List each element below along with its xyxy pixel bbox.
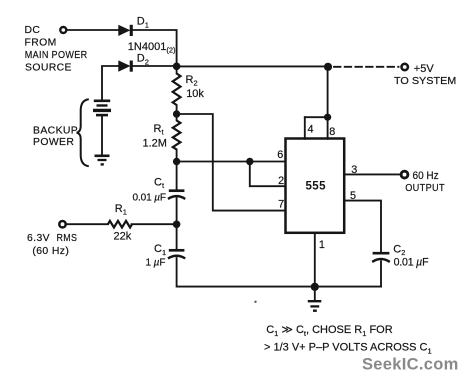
svg-text:5: 5 xyxy=(350,190,356,202)
wire: branch down from pin6 wire to pin 2 xyxy=(250,162,286,187)
wire: +5V rail from junction to dashed segment start xyxy=(177,65,328,67)
diode D2 xyxy=(118,60,130,71)
brace: backup power xyxy=(77,99,89,166)
svg-text:DC: DC xyxy=(25,25,41,36)
svg-text:555: 555 xyxy=(306,180,327,192)
wire: Ct bottom plate down to R1 junction xyxy=(176,198,178,224)
node: Rt bottom / pin6 junction xyxy=(173,158,180,165)
svg-text:6: 6 xyxy=(277,149,283,161)
svg-text:1.2M: 1.2M xyxy=(143,138,167,150)
terminal: 60 Hz output open circle xyxy=(401,171,408,178)
wire: battery bottom to ground stem xyxy=(101,116,103,154)
node: +5V rail to pin8 branch junction xyxy=(324,63,332,71)
resistor R2 body xyxy=(173,74,181,106)
node: ground junction xyxy=(311,283,319,291)
svg-text:FROM: FROM xyxy=(25,38,57,49)
wire: DC input to D1 anode xyxy=(67,29,118,31)
svg-text:3: 3 xyxy=(351,164,357,176)
wire: D2 cathode to junction xyxy=(132,65,177,67)
svg-text:10k: 10k xyxy=(186,88,204,100)
node: pin 4/8 bracket junction xyxy=(324,114,331,121)
svg-text:0.01 µF: 0.01 µF xyxy=(133,193,166,204)
capacitor Ct plates xyxy=(169,189,185,192)
svg-text:> 1/3 V+ P–P VOLTS ACROSS C1: > 1/3 V+ P–P VOLTS ACROSS C1 xyxy=(264,342,432,356)
wire: D2 anode left corner down to battery top xyxy=(102,66,119,100)
wire: R2/Rt junction right then down then right to pin 7 xyxy=(177,114,286,211)
svg-text:(60 Hz): (60 Hz) xyxy=(32,246,69,257)
terminal: +5V open circle xyxy=(402,64,408,70)
wire: C1 bottom plate down and right along bottom to C2 xyxy=(177,258,381,287)
wire: R1 right side to junction xyxy=(132,223,177,225)
wire: pin 4 stub xyxy=(304,117,306,139)
svg-text:BACKUP: BACKUP xyxy=(33,126,78,137)
svg-text:C1 ≫ Ct, CHOSE R1 FOR: C1 ≫ Ct, CHOSE R1 FOR xyxy=(266,324,393,338)
wire: rail to R2 top xyxy=(176,66,178,73)
svg-text:SOURCE: SOURCE xyxy=(25,63,72,74)
svg-text:7: 7 xyxy=(278,198,284,210)
terminal: DC input open circle xyxy=(60,27,66,33)
svg-text:+5V: +5V xyxy=(414,63,435,75)
wire: pin 8 stub xyxy=(327,117,329,139)
svg-text:4: 4 xyxy=(308,124,314,136)
svg-text:1 µF: 1 µF xyxy=(146,258,166,269)
node: R1/Ct/C1 junction xyxy=(173,221,181,229)
speck artifact xyxy=(254,301,256,303)
svg-text:MAIN POWER: MAIN POWER xyxy=(25,50,88,61)
wire: pin 3 output xyxy=(345,173,400,175)
diode D1 xyxy=(118,25,130,36)
wire: ground junction stem xyxy=(314,287,316,300)
svg-text:2: 2 xyxy=(278,175,284,187)
wire: pin 6 horizontal from Rt bottom junction to 555 xyxy=(177,161,286,163)
resistor R1 body xyxy=(108,221,132,228)
op-amp/IC U1: 555 timer box xyxy=(286,139,345,233)
wire: C2 top plate up then left to pin 5 xyxy=(345,201,381,252)
battery BT (backup power) plates xyxy=(94,99,110,102)
wire: dashed rail segment to +5V terminal xyxy=(334,66,399,68)
svg-text:22k: 22k xyxy=(114,231,132,243)
wire: C2 bottom up to C2 plate xyxy=(380,261,382,286)
capacitor C1 plates xyxy=(169,249,185,252)
wire: R2 bottom to Rt top through junction xyxy=(176,105,178,121)
wire: pin 1 stub down to ground junction xyxy=(314,233,316,287)
wire: 6.3V terminal to R1 xyxy=(67,223,108,225)
svg-text:1: 1 xyxy=(319,239,325,251)
node: R2/Rt junction xyxy=(173,110,180,117)
ground: under battery xyxy=(95,155,110,158)
wire: junction down to Ct top plate xyxy=(176,162,178,190)
capacitor C2 plates xyxy=(373,252,390,255)
node: pin6/pin2 branch junction xyxy=(246,158,253,165)
wire: pin 4/8 bracket horizontal xyxy=(305,116,328,118)
ground: main (pin 1) xyxy=(308,300,322,302)
wire: D1 cathode to top-right corner then down to +5V rail junction xyxy=(132,30,177,66)
wire: junction down to C1 top plate xyxy=(176,224,178,249)
terminal: 6.3V RMS input open circle xyxy=(59,221,65,227)
node: D1/D2 cathode junction xyxy=(173,63,181,71)
svg-text:SeekIC.com: SeekIC.com xyxy=(362,356,459,374)
svg-text:OUTPUT: OUTPUT xyxy=(405,183,445,194)
svg-text:TO SYSTEM: TO SYSTEM xyxy=(394,76,456,87)
wire: rail junction down to pin4/8 bracket xyxy=(327,67,329,117)
wire: Rt bottom to pin6 junction xyxy=(176,150,178,162)
svg-text:60 Hz: 60 Hz xyxy=(413,170,439,182)
svg-text:POWER: POWER xyxy=(33,137,74,148)
svg-text:0.01 µF: 0.01 µF xyxy=(394,257,429,269)
resistor Rt body xyxy=(173,121,181,150)
svg-text:8: 8 xyxy=(329,126,335,138)
